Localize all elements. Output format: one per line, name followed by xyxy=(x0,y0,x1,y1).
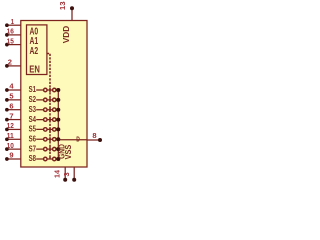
svg-text:S8: S8 xyxy=(29,154,37,163)
svg-text:S1: S1 xyxy=(29,85,37,94)
svg-text:7: 7 xyxy=(9,111,13,120)
svg-text:2: 2 xyxy=(8,58,12,67)
svg-text:15: 15 xyxy=(7,36,15,45)
svg-text:D: D xyxy=(76,137,80,144)
svg-text:10: 10 xyxy=(7,141,14,150)
svg-text:8: 8 xyxy=(92,131,97,140)
svg-text:S4: S4 xyxy=(29,115,37,124)
svg-text:A2: A2 xyxy=(30,46,39,57)
svg-text:14: 14 xyxy=(53,170,62,178)
svg-text:EN: EN xyxy=(29,64,40,75)
svg-text:6: 6 xyxy=(9,101,13,110)
svg-text:S3: S3 xyxy=(29,105,37,114)
svg-text:VSS: VSS xyxy=(64,145,73,160)
svg-text:5: 5 xyxy=(9,92,14,101)
svg-text:1: 1 xyxy=(11,17,15,26)
svg-text:13: 13 xyxy=(58,1,67,10)
svg-text:12: 12 xyxy=(7,121,14,130)
svg-text:S2: S2 xyxy=(29,95,37,104)
svg-text:9: 9 xyxy=(9,151,13,160)
svg-text:S5: S5 xyxy=(29,125,37,134)
svg-text:S7: S7 xyxy=(29,144,36,153)
svg-text:S6: S6 xyxy=(29,134,37,143)
svg-text:3: 3 xyxy=(62,172,71,176)
svg-text:4: 4 xyxy=(9,82,14,91)
svg-text:VDD: VDD xyxy=(62,25,71,43)
svg-text:11: 11 xyxy=(7,131,15,140)
svg-text:16: 16 xyxy=(7,27,14,36)
